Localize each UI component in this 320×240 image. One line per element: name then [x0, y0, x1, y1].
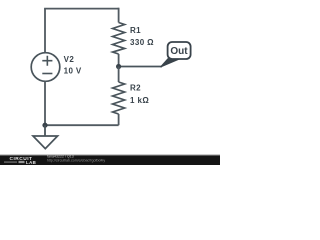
svg-text:http://circuitlab.com/c/ebad7g: http://circuitlab.com/c/ebad7gofbd4ly [47, 158, 106, 162]
logo CircuitLab [4, 156, 36, 165]
svg-text:Out: Out [170, 46, 188, 57]
wire node to Out flag [119, 66, 162, 68]
svg-text:R2: R2 [130, 83, 141, 92]
flag box Out [168, 42, 191, 59]
wire R2 top lead [118, 67, 120, 83]
ground symbol [33, 136, 58, 149]
watermark bar [0, 156, 220, 165]
node junction dot [116, 64, 121, 69]
resistor R1 [113, 23, 125, 55]
V2 minus sign [42, 73, 52, 75]
ground stem wire [44, 125, 46, 136]
wire bottom horizontal rail [45, 124, 119, 126]
wire top horizontal rail [44, 8, 119, 10]
ground node junction dot [42, 123, 47, 128]
svg-text:1 kΩ: 1 kΩ [130, 96, 149, 105]
wire R1 top lead [118, 8, 120, 23]
svg-text:V2: V2 [64, 55, 75, 64]
svg-text:R1: R1 [130, 26, 141, 35]
V2 plus sign [42, 56, 52, 66]
resistor R2 [113, 82, 125, 114]
svg-text:LAB: LAB [26, 160, 36, 165]
wire R2 bottom lead [118, 114, 120, 125]
svg-text:10 V: 10 V [64, 66, 82, 75]
wire V2 bottom lead to ground node [44, 81, 46, 125]
voltage source V2 circle [31, 53, 60, 82]
wire V2 top lead vertical [44, 9, 46, 53]
svg-text:330 Ω: 330 Ω [130, 38, 154, 47]
wire R1 bottom lead [118, 54, 120, 67]
flag tail Out [161, 59, 181, 67]
